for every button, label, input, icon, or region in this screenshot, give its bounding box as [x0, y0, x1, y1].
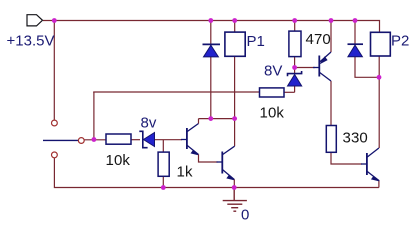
- zener diode Z1 8v: [139, 131, 154, 147]
- resistor R 330: [326, 126, 336, 153]
- wire P1 bottom / Q1b collector: [234, 56, 236, 146]
- svg-text:1k: 1k: [177, 163, 193, 180]
- node P1 top: [232, 18, 237, 23]
- wire switch common to 10k: [84, 139, 106, 141]
- node D1 top: [208, 18, 213, 23]
- wire Q3 emitter to rail: [378, 180, 380, 188]
- svg-text:0: 0: [241, 206, 249, 221]
- node switch common: [92, 137, 97, 142]
- node D2 P2 Q3: [377, 75, 382, 80]
- node ground stem: [232, 185, 237, 190]
- wire 330 bottom to Q3 base: [331, 152, 362, 164]
- wire 470 top pin: [294, 21, 296, 32]
- svg-text:P2: P2: [391, 33, 409, 50]
- wire node to 1k top: [162, 140, 164, 153]
- wire D1 top pin: [210, 21, 212, 45]
- svg-text:10k: 10k: [260, 104, 285, 121]
- transistor Q1a NPN: [181, 119, 199, 155]
- wire Q2 base: [295, 67, 315, 69]
- wire P2 bottom / Q3 collector: [378, 56, 380, 148]
- node W1 D1: [208, 116, 213, 121]
- svg-text:10k: 10k: [106, 152, 131, 169]
- diode D2: [348, 44, 364, 57]
- wire Z1 to Q1 base: [155, 139, 182, 141]
- svg-text:P1: P1: [247, 33, 265, 50]
- transistor Q1b NPN: [217, 146, 235, 187]
- switch contact top: [52, 120, 58, 126]
- wire bottom rail: [54, 158, 379, 188]
- relay coil P1: [225, 32, 245, 56]
- node rail-connector: [52, 18, 57, 23]
- svg-text:470: 470: [306, 31, 331, 48]
- wire Q2 collector to 330: [330, 81, 332, 126]
- wire D1 bottom pin: [210, 57, 212, 119]
- transistor Q2 PNP: [313, 52, 331, 81]
- wire 10k right to Z2 node: [284, 91, 295, 93]
- node W1 P1: [232, 116, 237, 121]
- svg-text:8V: 8V: [264, 63, 282, 80]
- node D2 top: [353, 18, 358, 23]
- zener diode Z2 8V: [288, 71, 302, 86]
- node 470 top: [292, 18, 297, 23]
- connector port: [27, 15, 43, 26]
- wire D2 bottom to P2 node: [355, 57, 379, 77]
- wire left drop to switch top contact: [53, 21, 55, 121]
- resistor R 10k (b): [260, 88, 285, 97]
- wire 1k bottom to ground rail: [162, 176, 164, 187]
- diode D1: [203, 44, 221, 57]
- wire 470 bottom to Z2: [294, 57, 296, 74]
- switch arm: [43, 139, 78, 141]
- resistor R 10k (a): [106, 134, 131, 144]
- wire P1 top pin: [234, 21, 236, 33]
- svg-text:8v: 8v: [141, 115, 157, 132]
- node 1k ground: [161, 185, 166, 190]
- node Q2 base Z2: [292, 65, 297, 70]
- resistor R 470: [289, 31, 301, 56]
- resistor R 1k: [158, 152, 169, 176]
- node Q2 emitter top: [329, 18, 334, 23]
- wire Q1a emitter to Q1b base: [199, 155, 218, 163]
- wire 10k to zener Z1: [131, 139, 140, 141]
- wire D2 top pin: [354, 21, 356, 45]
- switch arm pivot circle: [78, 138, 84, 144]
- svg-text:+13.5V: +13.5V: [7, 32, 55, 49]
- wire Z2 bottom: [294, 86, 296, 92]
- transistor Q3 NPN: [361, 148, 379, 181]
- wire switch node up: [93, 92, 95, 140]
- ground symbol: [223, 188, 247, 212]
- wire long mid horizontal: [93, 91, 259, 93]
- wire collector node W1: [199, 118, 235, 120]
- wire Q2 emitter to rail: [330, 21, 332, 53]
- relay coil P2: [371, 32, 391, 56]
- wire top rail +13.5V: [43, 21, 380, 33]
- switch contact bottom: [52, 152, 58, 158]
- svg-text:330: 330: [343, 129, 368, 146]
